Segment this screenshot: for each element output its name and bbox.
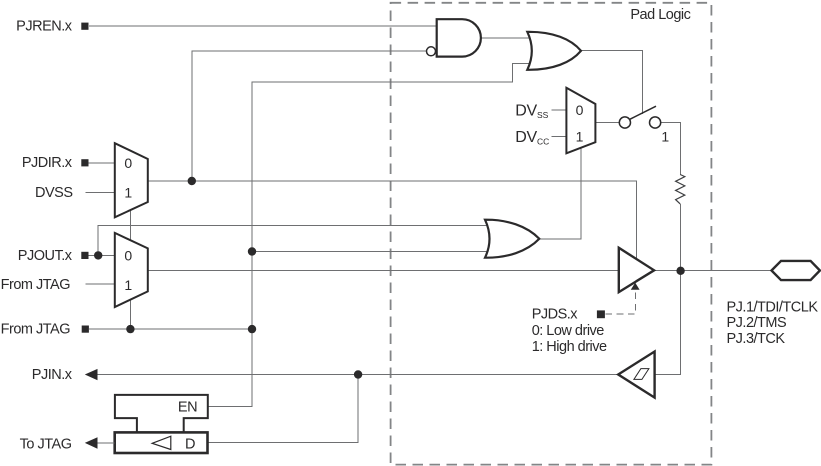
svg-text:PJIN.x: PJIN.x xyxy=(32,367,73,383)
wire PJOUT.x to OUT-mux 0 input xyxy=(88,254,115,256)
svg-text:PJREN.x: PJREN.x xyxy=(16,18,73,34)
switch S1 pole contact xyxy=(619,117,630,128)
terminal square PJOUT.x xyxy=(81,252,88,259)
wire JTAG-enable net to OR2 lower input xyxy=(252,251,491,253)
wire input buffer output to PJIN.x xyxy=(98,374,619,376)
svg-text:DVSS: DVSS xyxy=(35,185,73,201)
wire switch throw to resistor xyxy=(661,123,681,175)
svg-text:1: High drive: 1: High drive xyxy=(532,339,607,355)
wire AND output to OR1 upper input xyxy=(481,37,536,39)
OR gate U2 xyxy=(527,32,581,70)
wire PJREN.x to AND gate input xyxy=(89,25,437,27)
svg-text:D: D xyxy=(185,437,195,453)
PJDS dashed control line xyxy=(606,290,636,314)
PJDS.x terminal square xyxy=(597,310,605,318)
svg-text:To JTAG: To JTAG xyxy=(20,436,72,452)
wire PJOUT node to OR2 upper input xyxy=(98,225,491,255)
svg-text:From JTAG: From JTAG xyxy=(1,322,71,338)
OR gate U3 xyxy=(485,220,539,258)
svg-text:0: 0 xyxy=(576,102,584,118)
wire DVSS to DIR-mux 1 input xyxy=(85,191,115,193)
wire DIR-mux output to output driver enable xyxy=(148,181,637,260)
wire OR1 output to switch arm xyxy=(581,50,643,114)
terminal square PJDIR.x xyxy=(81,159,88,166)
arrow PJIN.x xyxy=(85,369,98,380)
drive strength arrow into U4 xyxy=(631,283,640,290)
arrow To JTAG xyxy=(85,437,98,448)
svg-text:PJ.2/TMS: PJ.2/TMS xyxy=(727,315,787,331)
wire From JTAG to OUT-mux 1 input xyxy=(85,283,115,285)
svg-text:0: Low drive: 0: Low drive xyxy=(532,323,605,339)
junction node JTAG-enable / OR2 input xyxy=(248,247,256,255)
svg-text:PJ.3/TCK: PJ.3/TCK xyxy=(727,331,786,347)
wire DVCC to VCC-mux 1 input xyxy=(552,136,567,138)
wire PJDIR.x to DIR-mux 0 input xyxy=(88,162,115,164)
wire To JTAG arrow to D latch xyxy=(98,442,115,444)
wire pad node down to input buffer xyxy=(656,271,681,375)
mux M2 PJOUT/From JTAG xyxy=(115,233,148,307)
wire OUT-mux select xyxy=(129,295,131,329)
mux M1 PJDIR/DVSS xyxy=(115,143,148,217)
mux M3 DVSS/DVCC xyxy=(566,88,595,154)
wire VCC-mux output to switch pole xyxy=(595,122,619,124)
wire From JTAG mux select line xyxy=(89,328,252,330)
svg-text:PJDS.x: PJDS.x xyxy=(532,307,579,323)
junction node pad net xyxy=(676,267,684,275)
wire OR2 output to VCC-mux select xyxy=(539,140,581,239)
AND gate U1 (inverted lower input) xyxy=(437,19,481,56)
svg-text:1: 1 xyxy=(576,129,584,145)
pad hexagon PJ.x xyxy=(772,261,820,280)
terminal square PJREN.x xyxy=(81,23,88,30)
svg-text:Pad Logic: Pad Logic xyxy=(630,7,690,23)
terminal square From JTAG xyxy=(82,326,89,333)
junction node at PJOUT xyxy=(94,251,102,259)
svg-text:1: 1 xyxy=(124,184,132,200)
clock triangle in D latch xyxy=(152,436,171,449)
wire DIR-mux output node to AND inverted input xyxy=(192,51,427,181)
hysteresis symbol in U5 xyxy=(634,369,649,380)
junction node at DIR-mux output xyxy=(188,177,196,185)
D latch box xyxy=(115,432,208,453)
switch S1 arm xyxy=(630,106,656,119)
output driver buffer U4 xyxy=(619,248,654,292)
switch S1 throw contact xyxy=(650,117,661,128)
input Schmitt buffer U5 xyxy=(618,352,654,398)
wire OUT-mux output to driver input xyxy=(148,269,619,271)
junction node JTAG-enable / From JTAG xyxy=(248,325,256,333)
svg-text:1: 1 xyxy=(124,277,132,293)
svg-text:EN: EN xyxy=(178,400,197,416)
wire EN box to JTAG-enable net vertical and OR1 lower input xyxy=(208,64,536,407)
svg-text:DVCC: DVCC xyxy=(515,129,549,146)
EN latch enable box xyxy=(115,395,208,433)
junction node PJIN / D latch xyxy=(354,370,362,378)
wire DIR-mux select xyxy=(129,209,131,241)
Pad Logic dashed boundary xyxy=(391,3,712,465)
junction node OUT-mux select xyxy=(126,325,134,333)
wire PJIN node to D latch input xyxy=(208,375,358,443)
svg-text:PJ.1/TDI/TCLK: PJ.1/TDI/TCLK xyxy=(727,299,819,315)
svg-text:1: 1 xyxy=(661,129,669,145)
svg-text:PJDIR.x: PJDIR.x xyxy=(22,155,73,171)
wire driver output to pad xyxy=(654,270,772,272)
resistor R1 xyxy=(676,175,685,204)
svg-text:PJOUT.x: PJOUT.x xyxy=(18,248,73,264)
inverting bubble on U1 input xyxy=(427,47,436,56)
svg-text:0: 0 xyxy=(124,247,132,263)
svg-text:0: 0 xyxy=(124,155,132,171)
svg-text:DVSS: DVSS xyxy=(515,103,548,120)
svg-text:From JTAG: From JTAG xyxy=(1,277,71,293)
wire DVSS to VCC-mux 0 input xyxy=(552,109,567,111)
wire resistor to pad node xyxy=(679,204,681,271)
